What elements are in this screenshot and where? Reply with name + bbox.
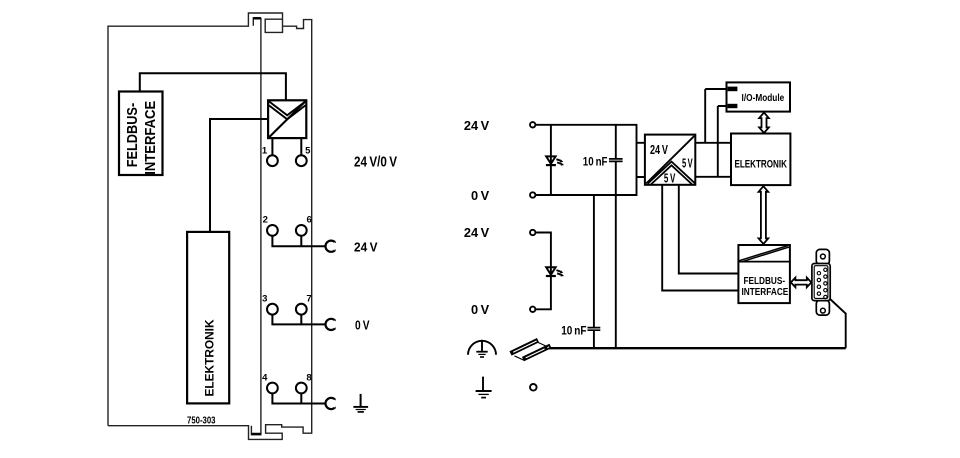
svg-text:1: 1 <box>262 146 268 157</box>
svg-text:ELEKTRONIK: ELEKTRONIK <box>204 319 216 397</box>
svg-text:ELEKTRONIK: ELEKTRONIK <box>734 159 787 171</box>
svg-text:24 V: 24 V <box>650 143 668 157</box>
svg-text:0 V: 0 V <box>471 302 490 317</box>
svg-text:I/O-Module: I/O-Module <box>742 93 785 104</box>
svg-text:FELDBUS-: FELDBUS- <box>743 276 785 287</box>
svg-text:6: 6 <box>307 215 312 226</box>
svg-text:5: 5 <box>305 146 311 157</box>
svg-text:0 V: 0 V <box>355 318 370 333</box>
svg-text:INTERFACE: INTERFACE <box>143 101 159 175</box>
svg-text:INTERFACE: INTERFACE <box>742 287 789 298</box>
svg-text:10 nF: 10 nF <box>583 157 608 169</box>
svg-text:5 V: 5 V <box>664 172 676 186</box>
svg-text:24 V: 24 V <box>464 225 490 240</box>
svg-text:2: 2 <box>263 215 268 226</box>
svg-text:3: 3 <box>262 294 267 305</box>
svg-text:24 V: 24 V <box>354 240 378 255</box>
svg-text:8: 8 <box>306 372 311 383</box>
svg-text:24 V: 24 V <box>464 118 490 133</box>
svg-text:7: 7 <box>306 294 311 305</box>
svg-text:FELDBUS-: FELDBUS- <box>125 103 141 168</box>
svg-text:4: 4 <box>262 372 268 383</box>
svg-text:750-303: 750-303 <box>187 415 216 426</box>
svg-text:5 V: 5 V <box>682 157 693 171</box>
svg-text:0 V: 0 V <box>471 188 490 203</box>
svg-text:24 V/0 V: 24 V/0 V <box>354 155 397 171</box>
svg-text:10 nF: 10 nF <box>561 326 586 338</box>
